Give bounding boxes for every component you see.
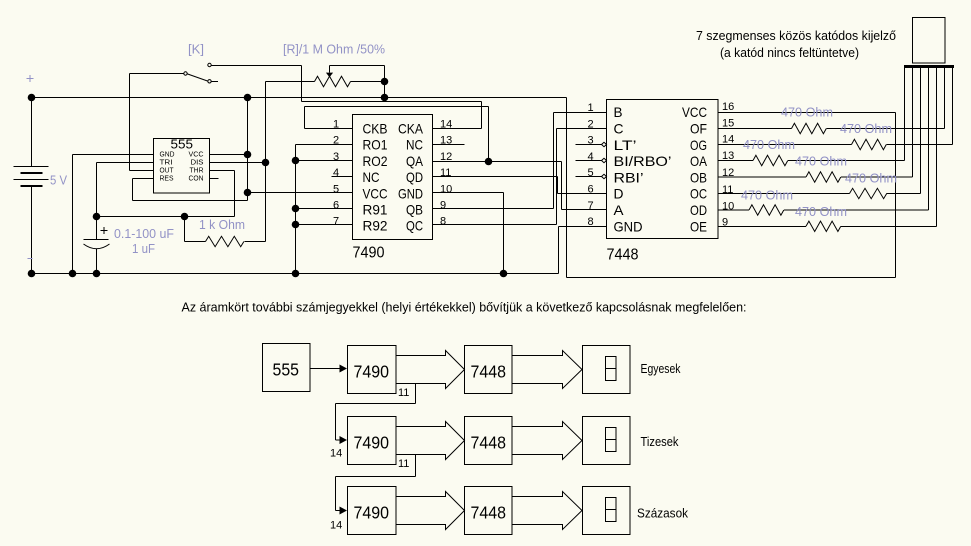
wire 7490 QC to 7448 C [433,129,607,225]
svg-text:BI/RBO’: BI/RBO’ [614,153,672,169]
wire 7448 BI/RBO stub [576,160,607,162]
wire 7448 RBI stub [576,176,607,178]
svg-text:OA: OA [690,153,708,169]
arrowhead 555 to 7490 [340,365,348,373]
svg-text:OC: OC [690,186,707,202]
svg-text:VCC: VCC [682,104,707,120]
battery minus label [28,258,33,260]
node 555 VCC junction [244,151,252,159]
resistor R f 470 [718,67,945,134]
svg-text:4: 4 [333,167,339,179]
svg-text:3: 3 [333,151,339,163]
svg-text:1 uF: 1 uF [132,241,155,256]
resistor R g 470 [718,67,953,150]
wire 7448 GND stub [559,226,607,228]
svg-text:7490: 7490 [353,245,385,262]
battery plus label [27,75,34,82]
svg-text:R92: R92 [363,218,388,234]
svg-text:7448: 7448 [471,503,507,523]
node pot bus junction [381,94,389,102]
wire 7448 VCC pin16 [718,112,896,114]
wire 7490 reset rail down [295,145,297,274]
svg-text:CON: CON [189,174,204,183]
svg-text:Az áramkört további számjegyek: Az áramkört további számjegyekkel (helyi… [182,300,747,315]
svg-text:GND: GND [398,185,423,201]
pin RBI open diamond [602,174,607,178]
block 555 [263,344,311,392]
svg-text:Egyesek: Egyesek [641,361,681,376]
node capacitor ground [93,270,101,278]
resistor R b 470 [718,67,913,182]
svg-text:14: 14 [330,448,342,460]
svg-text:CKA: CKA [398,121,424,137]
svg-text:NC: NC [363,169,380,185]
svg-text:555: 555 [273,360,300,380]
big arrow 7448 to display row1 [512,351,582,389]
svg-text:[R]/1 M Ohm /50%: [R]/1 M Ohm /50% [283,42,385,57]
svg-text:6: 6 [333,200,339,212]
wire 555 CON stub [210,178,219,180]
svg-text:GND: GND [614,218,643,234]
wire 7490 NC4 stub [332,176,353,178]
wire 555 VCC stub [210,154,248,156]
svg-text:QB: QB [406,202,423,218]
node R91 junction [292,205,300,213]
block 7490 row2 [348,417,397,465]
wire 555 OUT to switch [130,74,184,171]
svg-text:7: 7 [588,200,594,212]
node TRI cap junction [93,213,101,221]
svg-text:470 Ohm: 470 Ohm [795,204,847,219]
block 7448 row1 [465,346,513,394]
block 7490 row1 [348,346,397,394]
svg-text:7 szegmenses közös katódos kij: 7 szegmenses közös katódos kijelző [696,28,896,43]
block display row2 [583,417,631,465]
wire +5V top bus [32,98,896,278]
svg-text:7: 7 [333,216,339,228]
svg-text:8: 8 [440,216,446,228]
big arrow 7490 to 7448 row1 [396,351,465,389]
node QA CKB junction [485,158,493,166]
svg-text:15: 15 [722,117,734,129]
svg-text:CKB: CKB [363,121,388,137]
wire pot to bus [384,82,386,98]
node 7490 reset ground [292,270,300,278]
big arrow 7490 to 7448 row3 [396,492,465,530]
op-amp U1 555 box [154,139,210,194]
display digit row3 [606,498,617,522]
block display row3 [583,487,631,535]
node 7490 GND ground [500,270,508,278]
svg-text:7448: 7448 [471,362,507,382]
svg-text:OG: OG [690,137,707,153]
svg-text:RO1: RO1 [363,137,388,153]
svg-text:11: 11 [398,387,409,399]
big arrow 7448 to display row3 [512,492,582,530]
svg-text:Százasok: Százasok [637,506,688,521]
pin BI/RBO open diamond [602,158,607,162]
svg-text:10: 10 [440,183,452,195]
node battery + bus [28,94,36,102]
svg-text:5: 5 [588,167,594,179]
node R92 junction [292,221,300,229]
potentiometer R1 1M [266,66,385,87]
wire ground bus [32,227,559,274]
display digit row1 [606,357,617,381]
display segment wires [905,68,953,226]
svg-text:7490: 7490 [354,362,390,382]
node RO2 junction [292,157,300,165]
svg-text:OD: OD [690,202,707,218]
svg-text:Tizesek: Tizesek [641,434,679,449]
svg-text:QA: QA [406,153,424,169]
node 555 DIS pot junction [262,159,270,167]
wire 7490 NC13 stub [433,144,465,146]
svg-text:7490: 7490 [354,433,390,453]
svg-text:LT’: LT’ [614,137,637,153]
svg-text:RBI’: RBI’ [614,169,644,185]
svg-text:OB: OB [690,169,707,185]
block 7448 row2 [465,417,513,465]
svg-text:470 Ohm: 470 Ohm [781,105,833,120]
svg-text:QD: QD [406,169,423,185]
decoder U3 7448 box [607,100,719,239]
wire 7490 QB to 7448 B [433,113,607,209]
svg-text:470 Ohm: 470 Ohm [743,137,795,152]
svg-text:470 Ohm: 470 Ohm [840,121,892,136]
svg-text:B: B [614,104,623,120]
wire 555 TRI down [97,163,154,217]
svg-text:OF: OF [690,121,707,137]
svg-text:5 V: 5 V [50,173,67,188]
wire 7448 LT stub [576,144,607,146]
wire 555 RES to VCC net [133,179,248,201]
arrowhead into row2 7490 [340,436,348,444]
wire 7490 CKA stub [433,128,482,130]
svg-text:RES: RES [160,174,174,183]
svg-text:A: A [614,202,625,218]
wire 7490 GND to ground [433,193,504,274]
svg-text:7448: 7448 [607,247,639,264]
arrowhead into row3 7490 [340,507,348,515]
wire 7490 QA to 7448 A [433,162,607,210]
battery V1 5V [14,98,49,274]
wire 555 DIS stub [210,162,266,164]
switch K [184,63,218,83]
wire 7490 CKB to QA loop [305,107,489,162]
svg-text:7490: 7490 [354,503,390,523]
counter U2 7490 box [353,115,433,240]
display digit row2 [606,428,617,452]
node VCC bus junction [244,94,252,102]
svg-text:9: 9 [440,200,446,212]
svg-text:(a katód nincs feltüntetve): (a katód nincs feltüntetve) [720,45,859,60]
svg-text:7448: 7448 [471,433,507,453]
svg-text:14: 14 [722,134,734,146]
svg-text:14: 14 [330,520,342,532]
wire 7490 RO2 stub [296,160,353,162]
display DISP1 seven segment [904,18,954,69]
resistor R d 470 [718,67,929,215]
wire TRI THR net [97,216,235,218]
svg-text:2: 2 [588,118,594,130]
node 555 RES VCC junction [244,189,252,197]
wire 7490 R92 stub [296,224,353,226]
wire VCC vertical from bus [247,98,249,193]
svg-text:D: D [614,186,624,202]
block display row1 [583,346,631,394]
resistor R2 1k [185,217,266,247]
svg-text:470 Ohm: 470 Ohm [795,153,847,168]
wire 555 to 7490 block [310,368,342,370]
capacitor C1 [84,217,110,274]
svg-text:[K]: [K] [188,42,204,57]
wire VCC to 7490 pin5 [248,192,353,194]
wire row2 7490 pin11 to row3 [336,455,416,511]
wire switch to 7490 CKA pin14 [212,66,482,129]
resistor R a 470 [718,67,905,166]
svg-text:11: 11 [440,167,451,179]
svg-text:470 Ohm: 470 Ohm [741,187,793,202]
svg-text:NC: NC [406,137,423,153]
svg-text:R91: R91 [363,202,388,218]
resistor R e 470 [718,67,937,232]
wire 555 THR down [210,171,235,217]
big arrow 7448 to display row2 [512,422,582,460]
block 7448 row3 [465,487,513,535]
svg-text:4: 4 [588,151,594,163]
svg-text:5: 5 [333,183,339,195]
node pot right terminal [381,78,389,86]
wire 555 GND to ground [73,155,154,274]
svg-text:470 Ohm: 470 Ohm [845,170,897,185]
wire pot left to 555 DIS [265,82,267,242]
node 555 GND ground [69,270,77,278]
wire 7490 QD to 7448 D [433,177,607,194]
node battery - ground [28,270,36,278]
block 7490 row3 [348,487,397,535]
big arrow 7490 to 7448 row2 [396,422,465,460]
wire row1 7490 pin11 to row2 [336,384,416,440]
svg-text:6: 6 [588,184,594,196]
svg-text:C: C [614,121,624,137]
svg-text:QC: QC [406,218,423,234]
node 1k resistor junction [181,213,189,221]
svg-text:11: 11 [398,458,409,470]
svg-text:1 k Ohm: 1 k Ohm [199,217,245,232]
wire 7490 RO1 stub [296,144,353,146]
wire 7490 R91 stub [296,208,353,210]
svg-text:0.1-100 uF: 0.1-100 uF [114,226,174,241]
resistor R c 470 [718,67,921,199]
svg-text:VCC: VCC [363,185,388,201]
svg-text:RO2: RO2 [363,153,388,169]
pin LT open diamond [602,142,607,146]
svg-text:16: 16 [722,101,734,113]
svg-text:OE: OE [690,218,707,234]
svg-text:1: 1 [588,102,594,114]
